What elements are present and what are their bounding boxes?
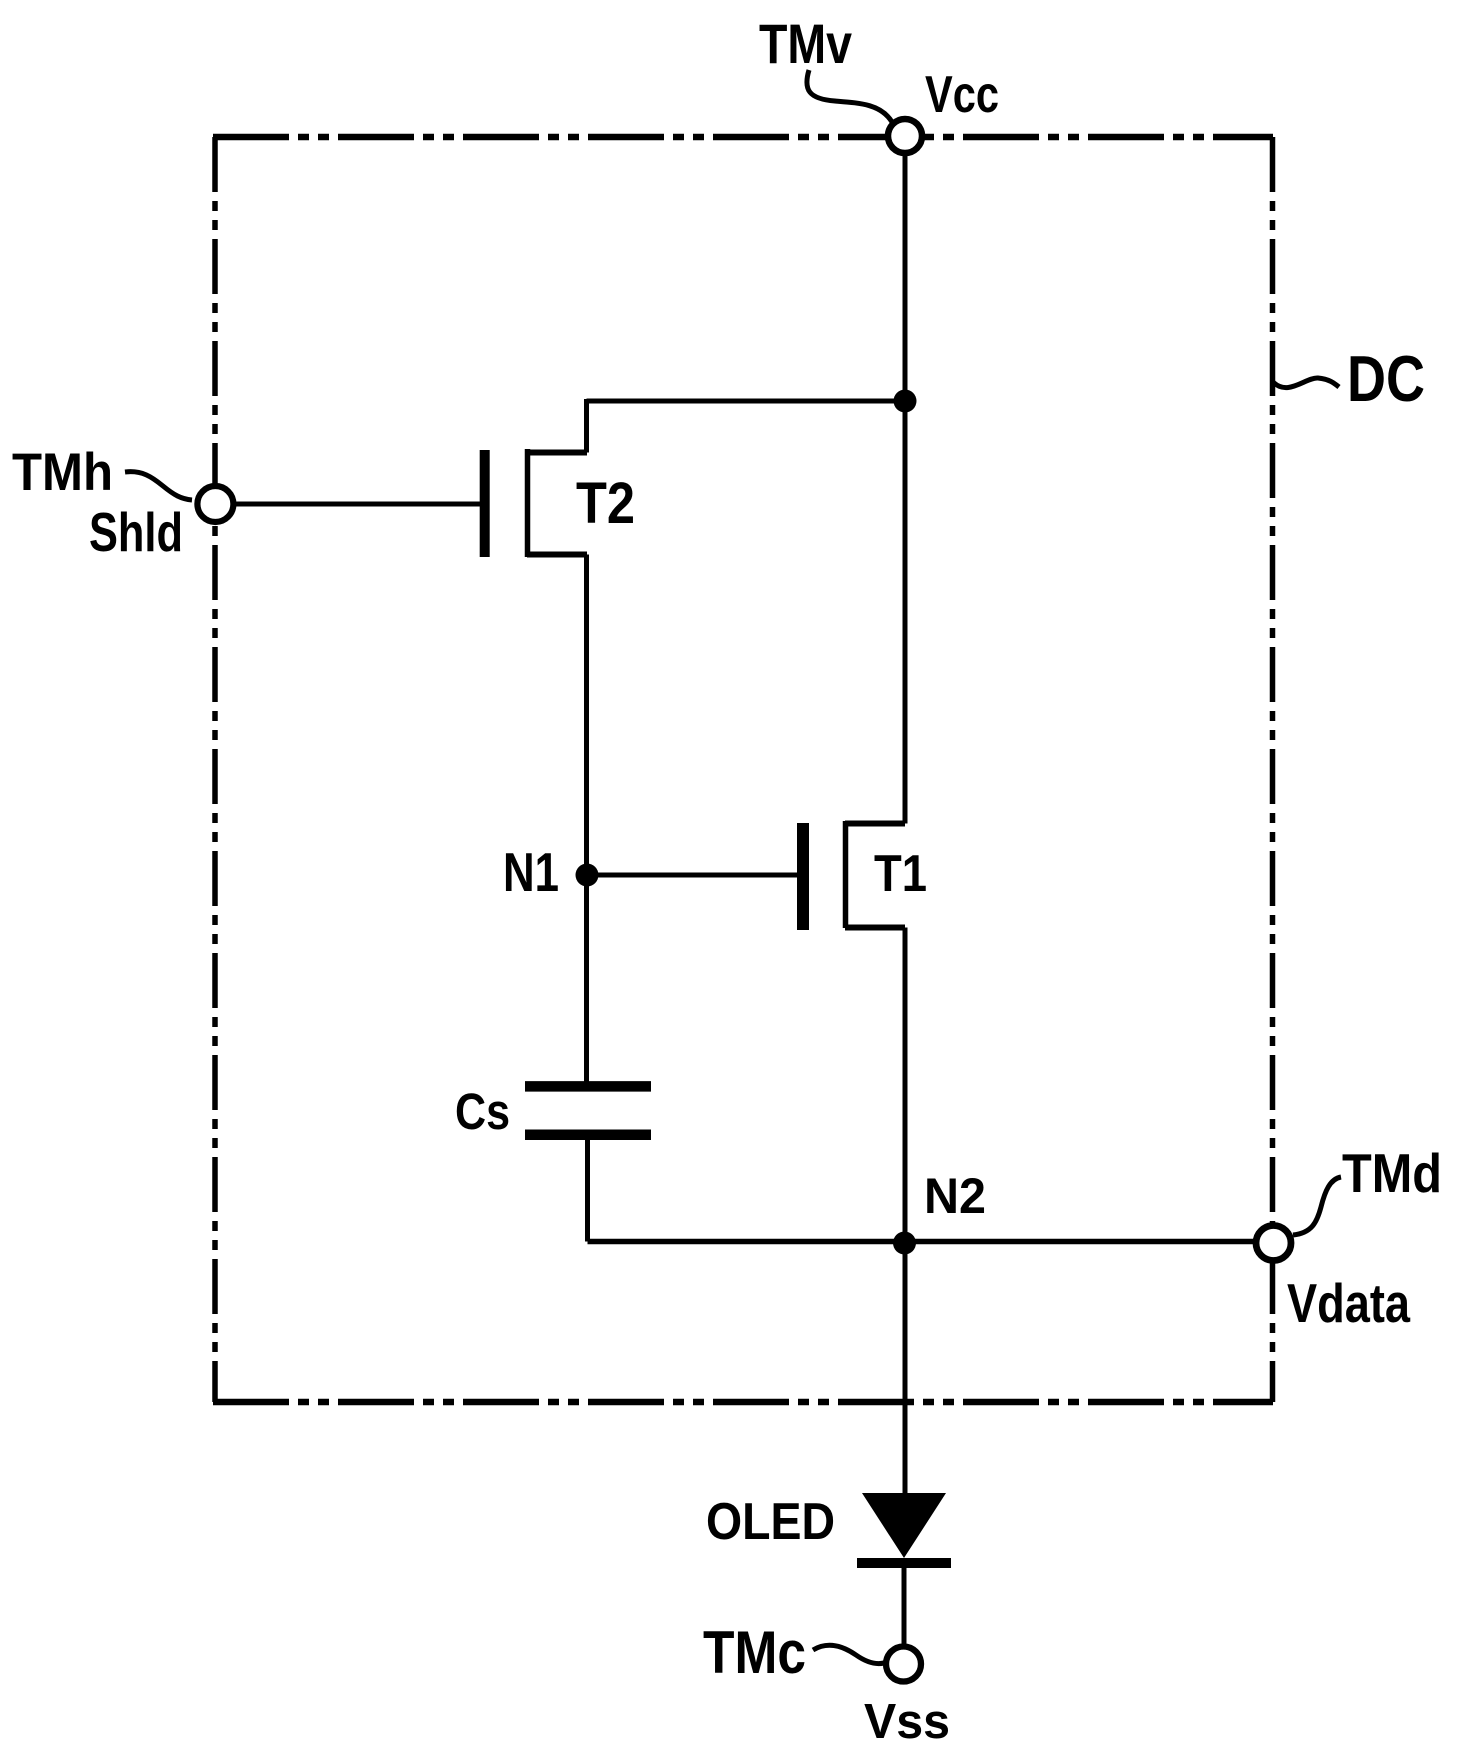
svg-text:DC: DC — [1347, 342, 1425, 415]
wire T2 drain to Vcc line (horizontal) — [587, 399, 906, 404]
wire T2 source down to Cs (through N1) — [584, 555, 589, 1083]
wire OLED cathode to Vss terminal — [902, 1568, 907, 1648]
svg-text:Vcc: Vcc — [925, 66, 999, 124]
wire N1 to T1 gate — [587, 873, 800, 878]
label Vss — [864, 1695, 950, 1749]
label Shld — [89, 501, 183, 563]
label TMv — [759, 12, 852, 75]
terminal TMc (Vss) circle — [886, 1647, 921, 1682]
node N1 junction dot — [576, 864, 599, 887]
wire T2 gate lead (from Shld terminal) — [232, 502, 480, 507]
leader squiggle TMd — [1293, 1177, 1341, 1235]
label Cs — [455, 1083, 510, 1140]
leader squiggle DC — [1273, 378, 1339, 388]
svg-text:N1: N1 — [503, 841, 559, 903]
svg-text:TMv: TMv — [759, 12, 852, 75]
svg-text:TMd: TMd — [1342, 1142, 1442, 1204]
label N2 — [924, 1168, 986, 1224]
svg-text:TMh: TMh — [12, 443, 113, 502]
label Vcc — [925, 66, 999, 124]
svg-text:Cs: Cs — [455, 1083, 510, 1140]
svg-text:Vdata: Vdata — [1287, 1272, 1410, 1334]
svg-text:Vss: Vss — [864, 1695, 950, 1749]
label TMd — [1342, 1142, 1442, 1204]
leader squiggle TMh — [125, 472, 192, 500]
terminal TMd (Vdata) circle — [1256, 1226, 1291, 1261]
diode OLED (anode triangle) — [862, 1493, 946, 1558]
leader squiggle TMc — [813, 1645, 884, 1663]
node N2 junction dot — [893, 1232, 916, 1255]
wire Vcc vertical (Vcc terminal down to T1 drain) — [903, 136, 908, 824]
DC cell boundary bottom (dash-dot) — [213, 1399, 1273, 1406]
label OLED — [706, 1493, 835, 1551]
svg-text:T1: T1 — [874, 845, 927, 903]
transistor T2 — [485, 399, 587, 557]
DC cell boundary left (dash-dot) — [212, 137, 218, 1402]
capacitor Cs — [525, 1086, 651, 1241]
svg-text:T2: T2 — [576, 471, 635, 536]
wire T1 source down to OLED (through N2) — [903, 928, 908, 1495]
wire N2 horizontal to Vdata terminal — [588, 1239, 1273, 1245]
transistor T1 — [803, 821, 905, 930]
label Vdata — [1287, 1272, 1410, 1334]
label TMh — [12, 443, 113, 502]
label TMc — [703, 1619, 806, 1686]
DC cell boundary top (dash-dot) — [213, 134, 1273, 141]
label N1 — [503, 841, 559, 903]
svg-text:Shld: Shld — [89, 501, 183, 563]
label T1 — [874, 845, 927, 903]
label DC — [1347, 342, 1425, 415]
node junction at Vcc line / T2 drain — [894, 390, 917, 413]
DC cell boundary right (dash-dot) — [1270, 137, 1276, 1402]
label T2 — [576, 471, 635, 536]
svg-text:TMc: TMc — [703, 1619, 806, 1686]
terminal TMh (Shld) circle — [197, 486, 233, 522]
leader squiggle TMv — [807, 70, 892, 122]
svg-text:OLED: OLED — [706, 1493, 835, 1551]
svg-text:N2: N2 — [924, 1168, 986, 1224]
terminal TMv (Vcc) circle — [888, 119, 922, 153]
diode OLED cathode bar — [857, 1558, 951, 1568]
